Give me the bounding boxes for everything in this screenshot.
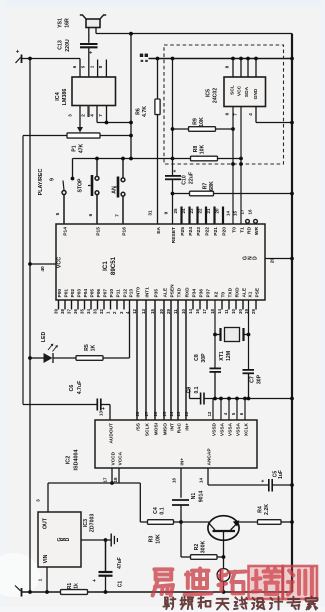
svg-text:2.2K: 2.2K xyxy=(264,504,270,515)
svg-text:T0: T0 xyxy=(232,227,238,233)
svg-text:0.1: 0.1 xyxy=(194,386,200,393)
svg-text:MOSI: MOSI xyxy=(154,422,160,435)
svg-text:OUT: OUT xyxy=(43,517,49,529)
svg-text:18: 18 xyxy=(210,309,215,314)
svg-text:YS1: YS1 xyxy=(58,18,64,28)
svg-text:R1: R1 xyxy=(67,583,73,590)
svg-text:PLAY/REC: PLAY/REC xyxy=(38,169,44,196)
svg-text:22: 22 xyxy=(184,411,189,416)
svg-text:ANCAP: ANCAP xyxy=(207,448,213,466)
svg-text:89C51: 89C51 xyxy=(110,256,117,275)
svg-text:R5: R5 xyxy=(84,344,90,351)
svg-text:T1: T1 xyxy=(240,227,246,233)
svg-text:R9: R9 xyxy=(193,118,199,125)
svg-text:R6: R6 xyxy=(136,108,142,115)
svg-text:P1: P1 xyxy=(72,145,78,151)
svg-text:68K: 68K xyxy=(209,181,215,191)
svg-text:RXD: RXD xyxy=(235,287,241,298)
svg-text:P35: P35 xyxy=(154,289,160,298)
svg-text:+: + xyxy=(101,407,107,410)
svg-text:10K: 10K xyxy=(200,144,206,154)
svg-text:10: 10 xyxy=(231,309,236,314)
svg-text:P23: P23 xyxy=(196,227,202,236)
svg-text:12: 12 xyxy=(132,309,137,314)
svg-text:P14: P14 xyxy=(63,227,69,236)
svg-text:RESET: RESET xyxy=(171,227,177,243)
svg-text:9014: 9014 xyxy=(199,491,205,503)
svg-text:18: 18 xyxy=(113,477,118,483)
svg-text:P15: P15 xyxy=(96,227,102,236)
svg-text:P25: P25 xyxy=(180,227,186,236)
svg-text:RD: RD xyxy=(247,227,253,235)
svg-text:IC5: IC5 xyxy=(206,89,212,97)
svg-text:17: 17 xyxy=(202,309,207,314)
svg-text:300K: 300K xyxy=(201,541,207,554)
svg-text:1K: 1K xyxy=(91,344,97,351)
svg-text:P07: P07 xyxy=(103,289,109,298)
svg-text:32: 32 xyxy=(99,309,104,314)
svg-text:P10: P10 xyxy=(109,289,115,298)
svg-text:4.7K: 4.7K xyxy=(142,106,148,117)
svg-text:220U: 220U xyxy=(65,39,71,52)
svg-text:P03: P03 xyxy=(77,289,83,298)
svg-text:6: 6 xyxy=(225,112,231,115)
svg-text:C10: C10 xyxy=(182,175,188,185)
svg-text:P00: P00 xyxy=(57,289,63,298)
svg-text:T0: T0 xyxy=(221,292,227,298)
svg-text:14: 14 xyxy=(226,211,231,217)
svg-text:7: 7 xyxy=(233,113,239,116)
svg-text:VCCD: VCCD xyxy=(111,451,117,465)
svg-text:30: 30 xyxy=(159,309,164,314)
svg-text:17: 17 xyxy=(240,209,245,215)
svg-text:P02: P02 xyxy=(70,289,76,298)
svg-text:36: 36 xyxy=(73,309,78,314)
svg-text:P06: P06 xyxy=(96,289,102,298)
svg-text:31: 31 xyxy=(148,210,154,216)
svg-text:2: 2 xyxy=(81,114,86,117)
svg-text:WR: WR xyxy=(254,227,260,236)
svg-text:PSEN: PSEN xyxy=(170,284,176,298)
svg-text:INT: INT xyxy=(170,423,176,431)
svg-text:4: 4 xyxy=(248,113,254,116)
svg-text:IC2: IC2 xyxy=(66,456,72,464)
svg-text:14: 14 xyxy=(188,309,193,314)
svg-text:SDA: SDA xyxy=(244,86,250,97)
svg-text:EA: EA xyxy=(156,227,162,234)
svg-text:17: 17 xyxy=(103,477,108,483)
svg-text:VSSA: VSSA xyxy=(236,422,242,436)
svg-text:RAC: RAC xyxy=(177,422,183,433)
svg-text:29: 29 xyxy=(251,309,256,314)
svg-text:24C02: 24C02 xyxy=(213,88,219,103)
svg-text:P34: P34 xyxy=(192,289,198,298)
svg-text:8: 8 xyxy=(225,65,231,68)
svg-text:C7: C7 xyxy=(250,376,256,383)
svg-text:1: 1 xyxy=(90,65,95,68)
svg-text:P24: P24 xyxy=(188,227,194,236)
svg-text:XCLK: XCLK xyxy=(244,422,250,436)
svg-text:37: 37 xyxy=(66,309,71,314)
svg-text:P21: P21 xyxy=(213,227,219,236)
svg-text:VSSD: VSSD xyxy=(212,422,218,436)
svg-text:LM386: LM386 xyxy=(62,89,68,106)
svg-text:TXD: TXD xyxy=(228,287,234,297)
svg-text:47K: 47K xyxy=(79,143,85,153)
svg-text:10K: 10K xyxy=(199,117,205,127)
svg-text:IC1: IC1 xyxy=(102,261,109,271)
svg-text:P20: P20 xyxy=(222,227,228,236)
svg-text:+: + xyxy=(92,579,98,582)
svg-text:24: 24 xyxy=(169,411,174,416)
svg-text:IN+: IN+ xyxy=(185,423,191,431)
svg-text:C8: C8 xyxy=(194,354,200,361)
svg-text:47uF: 47uF xyxy=(117,557,123,569)
svg-text:27: 27 xyxy=(144,411,149,416)
svg-text:P16: P16 xyxy=(122,227,128,236)
svg-text:23: 23 xyxy=(176,411,181,416)
svg-text:/SS: /SS xyxy=(136,422,142,431)
svg-text:+: + xyxy=(16,49,20,56)
svg-text:25: 25 xyxy=(162,411,167,416)
svg-text:1k: 1k xyxy=(74,583,80,589)
svg-text:16R: 16R xyxy=(65,18,71,28)
svg-text:25: 25 xyxy=(173,208,178,214)
svg-text:13: 13 xyxy=(141,309,146,314)
svg-text:11: 11 xyxy=(224,309,229,314)
svg-text:N1: N1 xyxy=(191,493,197,500)
svg-text:28: 28 xyxy=(135,411,140,416)
svg-text:R2: R2 xyxy=(194,544,200,551)
svg-text:INT1: INT1 xyxy=(145,287,151,298)
svg-text:P37: P37 xyxy=(206,289,212,298)
svg-text:P36: P36 xyxy=(199,289,205,298)
svg-text:9: 9 xyxy=(50,178,56,181)
svg-text:6: 6 xyxy=(72,65,77,68)
svg-text:12M: 12M xyxy=(226,351,232,361)
svg-text:14: 14 xyxy=(217,309,222,314)
svg-text:35: 35 xyxy=(79,309,84,314)
svg-text:STOP: STOP xyxy=(78,178,84,193)
svg-text:PSE: PSE xyxy=(255,287,261,297)
svg-text:VSSA: VSSA xyxy=(220,422,226,436)
svg-text:IC4: IC4 xyxy=(55,92,61,100)
svg-text:30: 30 xyxy=(238,309,243,314)
svg-text:TXD: TXD xyxy=(177,287,183,297)
svg-text:+: + xyxy=(261,479,267,482)
svg-text:10K: 10K xyxy=(156,534,162,544)
svg-text:1uF: 1uF xyxy=(278,470,284,479)
svg-text:30P: 30P xyxy=(257,374,263,384)
svg-text:RXD: RXD xyxy=(185,287,191,298)
svg-text:23: 23 xyxy=(189,208,194,214)
svg-text:22uF: 22uF xyxy=(189,172,195,184)
svg-text:R7: R7 xyxy=(203,183,209,190)
svg-text:15: 15 xyxy=(233,211,238,217)
svg-text:13: 13 xyxy=(99,411,104,417)
svg-text:3: 3 xyxy=(36,499,42,502)
svg-text:VSSA: VSSA xyxy=(228,422,234,436)
svg-text:39: 39 xyxy=(53,309,58,314)
svg-text:VCC: VCC xyxy=(57,257,63,268)
svg-text:D: D xyxy=(253,256,259,260)
svg-text:24: 24 xyxy=(181,208,186,214)
svg-text:33: 33 xyxy=(92,309,97,314)
svg-text:3: 3 xyxy=(68,114,73,117)
svg-text:+: + xyxy=(173,169,179,172)
svg-text:5: 5 xyxy=(81,65,86,68)
svg-text:1: 1 xyxy=(38,578,44,581)
svg-text:INT0: INT0 xyxy=(136,287,142,298)
svg-text:0.1: 0.1 xyxy=(160,507,166,514)
svg-text:X1: X1 xyxy=(248,291,254,297)
svg-text:ISD4004: ISD4004 xyxy=(74,450,80,471)
svg-text:20: 20 xyxy=(215,208,220,214)
svg-text:38: 38 xyxy=(60,309,65,314)
svg-text:20: 20 xyxy=(270,258,276,264)
svg-text:VIN: VIN xyxy=(43,554,49,563)
svg-text:26: 26 xyxy=(153,411,158,416)
svg-text:P22: P22 xyxy=(205,227,211,236)
svg-text:SCLK: SCLK xyxy=(145,422,151,436)
svg-text:12: 12 xyxy=(207,411,212,416)
svg-text:10: 10 xyxy=(181,309,186,314)
svg-text:C4: C4 xyxy=(153,507,159,514)
svg-text:P04: P04 xyxy=(83,289,89,298)
svg-text:ZD7003: ZD7003 xyxy=(90,514,96,533)
svg-text:4: 4 xyxy=(90,114,95,117)
svg-text:C13: C13 xyxy=(58,40,64,50)
svg-text:14: 14 xyxy=(199,478,204,484)
svg-text:R8: R8 xyxy=(193,146,199,153)
svg-text:9: 9 xyxy=(164,211,170,214)
svg-text:5: 5 xyxy=(55,212,61,215)
svg-text:ALE: ALE xyxy=(163,287,169,297)
svg-text:21: 21 xyxy=(206,208,211,214)
svg-text:16: 16 xyxy=(248,209,253,215)
svg-text:15: 15 xyxy=(150,309,155,314)
svg-text:P01: P01 xyxy=(64,289,70,298)
svg-text:29: 29 xyxy=(166,309,171,314)
svg-text:VCC: VCC xyxy=(237,85,243,96)
svg-text:AUDOUT: AUDOUT xyxy=(109,423,115,444)
svg-text:R4: R4 xyxy=(258,506,264,513)
svg-text:P05: P05 xyxy=(90,289,96,298)
svg-text:C1: C1 xyxy=(118,581,124,588)
svg-text:C6: C6 xyxy=(69,385,75,392)
svg-text:30P: 30P xyxy=(201,353,207,363)
svg-text:MISO: MISO xyxy=(163,423,169,436)
svg-text:C9: C9 xyxy=(187,387,193,394)
svg-text:34: 34 xyxy=(86,309,91,314)
svg-text:VCCA: VCCA xyxy=(118,451,124,465)
svg-text:XT1: XT1 xyxy=(219,351,225,361)
svg-text:P12: P12 xyxy=(123,289,129,298)
svg-text:D: D xyxy=(65,537,71,541)
svg-text:IC3: IC3 xyxy=(83,519,89,527)
svg-text:40: 40 xyxy=(40,266,46,272)
svg-text:LED: LED xyxy=(41,332,47,343)
svg-text:GND: GND xyxy=(253,88,259,99)
svg-text:8: 8 xyxy=(98,65,103,68)
svg-text:R3: R3 xyxy=(149,536,155,543)
svg-text:X2: X2 xyxy=(214,291,220,297)
svg-text:SCL: SCL xyxy=(230,85,236,95)
svg-text:16: 16 xyxy=(195,309,200,314)
svg-text:6: 6 xyxy=(88,213,94,216)
svg-text:7: 7 xyxy=(98,114,103,117)
svg-text:P11: P11 xyxy=(116,289,122,298)
svg-text:ALE: ALE xyxy=(242,287,248,297)
svg-text:IN+: IN+ xyxy=(180,458,186,466)
svg-text:16: 16 xyxy=(172,478,177,484)
svg-text:22: 22 xyxy=(198,208,203,214)
svg-text:11: 11 xyxy=(173,309,178,314)
svg-text:7: 7 xyxy=(115,214,121,217)
svg-text:P13: P13 xyxy=(129,289,135,298)
svg-text:4.7uF: 4.7uF xyxy=(77,381,83,395)
